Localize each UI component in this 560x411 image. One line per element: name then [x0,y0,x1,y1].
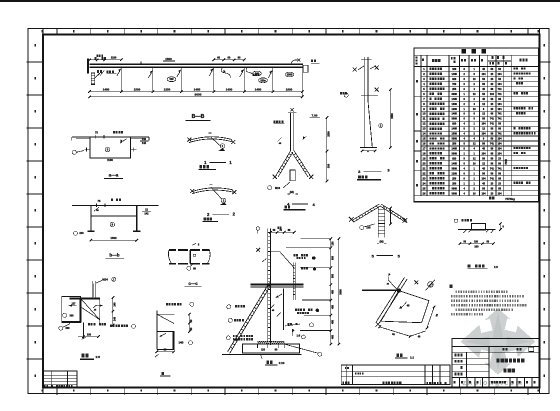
svg-text:3000: 3000 [452,93,458,96]
skew plate detail [362,273,439,339]
svg-text:1500: 1500 [391,113,394,119]
svg-text:920: 920 [452,78,457,81]
svg-text:1485: 1485 [452,98,458,101]
svg-text:258: 258 [452,177,457,180]
svg-text:23: 23 [423,176,426,180]
svg-text:16: 16 [423,142,426,146]
section c-c bowtie [168,243,210,270]
svg-text:104: 104 [498,73,503,76]
svg-text:1500: 1500 [452,133,458,136]
svg-text:1480: 1480 [255,87,262,91]
svg-text:135: 135 [366,227,371,230]
svg-text:741: 741 [490,118,495,121]
svg-text:159: 159 [169,78,174,81]
svg-text:b—b: b—b [109,252,119,257]
svg-text:17: 17 [423,147,426,151]
label b-b [106,252,125,258]
svg-text:21: 21 [423,166,426,170]
svg-text:10: 10 [423,112,426,116]
svg-text:19: 19 [423,157,426,161]
label 1-1 [204,160,232,165]
svg-text:258: 258 [452,88,457,91]
svg-text:741: 741 [490,167,495,170]
svg-text:741: 741 [490,123,495,126]
right ruler band [540,29,551,394]
svg-text:3000: 3000 [452,192,458,195]
svg-text:104: 104 [482,177,487,180]
svg-text:3000: 3000 [452,153,458,156]
arched member detail 2 [190,185,236,205]
svg-text:741: 741 [490,143,495,146]
svg-text:104: 104 [482,73,487,76]
title block [452,338,539,387]
svg-text:920: 920 [452,123,457,126]
svg-text:104: 104 [482,192,487,195]
post elevation detail 3 [340,57,394,153]
weld symbols below beam left [95,70,117,78]
caption detail 3 [358,175,361,178]
bracket detail KT2 [155,302,194,357]
svg-text:450: 450 [331,289,334,294]
beam top label 1500 [141,57,175,64]
svg-text:110: 110 [261,348,266,351]
svg-text:160: 160 [255,73,260,76]
svg-text:1400: 1400 [226,87,233,91]
bottom ruler band [42,388,540,395]
svg-text:258: 258 [452,143,457,146]
svg-text:1500: 1500 [165,57,172,61]
svg-text:(M): (M) [379,240,383,244]
svg-text:1485: 1485 [452,128,458,131]
bracket detail KT1 [59,277,136,339]
circled labels below beam [167,71,294,83]
svg-text:3000: 3000 [452,187,458,190]
label 3-3 [358,167,390,174]
svg-text:3000: 3000 [452,167,458,170]
svg-text:1100: 1100 [107,158,113,162]
svg-text:104: 104 [482,123,487,126]
caption plate detail 1 [200,165,203,168]
label 2-2 [207,212,236,217]
svg-text:M16: M16 [275,186,281,190]
caption plate detail 2 [203,218,205,221]
label 4-4 [287,202,315,207]
svg-text:1200: 1200 [452,108,458,111]
beam lower dimension line [88,87,303,93]
svg-text:1:1: 1:1 [410,355,414,359]
svg-text:9000: 9000 [195,93,202,97]
svg-text:1500: 1500 [134,87,141,91]
svg-text:24: 24 [423,181,426,185]
svg-text:1485: 1485 [452,113,458,116]
svg-text:104: 104 [498,138,503,141]
svg-text:920: 920 [452,158,457,161]
notes block [450,284,527,315]
label B-B [186,114,211,120]
svg-text:500: 500 [331,273,334,278]
bottom signature table [341,365,450,385]
svg-text:1350: 1350 [164,87,171,91]
svg-text:150a: 150a [260,79,266,82]
caption embed plate [468,264,499,269]
svg-text:104: 104 [498,148,503,151]
svg-text:142: 142 [142,142,147,145]
svg-text:160: 160 [474,246,479,249]
svg-text:400: 400 [331,334,334,339]
section b-b frame [72,199,159,242]
svg-text:(M): (M) [290,190,294,194]
svg-text:741: 741 [498,133,503,136]
svg-text:760: 760 [452,83,457,86]
svg-text:104: 104 [498,143,503,146]
caption detail 4 [285,205,287,208]
svg-text:104: 104 [482,133,487,136]
svg-text:600: 600 [331,255,334,260]
svg-text:1500: 1500 [287,74,293,77]
arched member detail 1 [187,133,235,151]
svg-text:3000: 3000 [452,138,458,141]
svg-text:450: 450 [331,319,334,324]
svg-text:7575kg: 7575kg [505,197,515,201]
svg-text:14: 14 [423,132,426,136]
svg-text:1:6: 1:6 [296,334,300,337]
caption KZ1 [265,361,285,366]
svg-text:13: 13 [423,127,426,131]
svg-text:104: 104 [498,153,503,156]
svg-text:7.00: 7.00 [312,113,318,117]
svg-text:1500: 1500 [110,236,117,240]
svg-text:258: 258 [452,182,457,185]
svg-text:142: 142 [144,213,149,216]
svg-text:741: 741 [498,93,503,96]
svg-text:1:5: 1:5 [494,265,498,269]
svg-text:140: 140 [114,316,117,321]
svg-text:1:5: 1:5 [96,355,101,359]
svg-text:12: 12 [423,122,426,126]
column base detail KZ1 [222,227,343,359]
svg-text:500: 500 [66,327,71,330]
material table [414,48,539,202]
svg-text:104: 104 [498,103,503,106]
svg-text:741: 741 [490,177,495,180]
svg-text:1485: 1485 [452,148,458,151]
svg-text:300: 300 [327,163,330,168]
svg-text:150: 150 [331,241,334,246]
svg-text:14B: 14B [179,341,184,345]
svg-text:a—a: a—a [109,173,119,178]
svg-text:1485: 1485 [452,73,458,76]
embed plate detail [454,219,504,249]
svg-text:160: 160 [452,68,457,71]
purlin beam elevation [87,58,320,97]
beam top-left dimension [88,55,123,62]
svg-text:741: 741 [498,113,503,116]
left ruler band [27,29,44,394]
svg-text:450: 450 [331,304,334,309]
top ruler band [42,29,540,35]
svg-text:3000: 3000 [340,289,343,295]
svg-text:1:10: 1:10 [279,361,285,365]
svg-text:22: 22 [423,171,426,175]
svg-text:26: 26 [423,191,426,195]
svg-text:100: 100 [87,333,92,336]
beam overall dimension line [88,93,303,99]
caption KT1 [80,354,101,360]
label 5-5 [372,253,401,258]
svg-text:1100: 1100 [111,57,117,60]
svg-text:1500: 1500 [452,103,458,106]
svg-text:18: 18 [423,152,426,156]
svg-text:104: 104 [498,83,503,86]
svg-text:20: 20 [423,162,426,166]
svg-text:1200: 1200 [452,172,458,175]
svg-text:104: 104 [490,93,495,96]
label a-a [104,173,123,179]
svg-text:1500: 1500 [327,131,330,137]
svg-text:1600: 1600 [286,87,293,91]
svg-text:240: 240 [79,232,84,235]
svg-text:1485: 1485 [194,87,201,91]
svg-text:3000: 3000 [452,118,458,121]
svg-text:M24: M24 [102,278,108,282]
apex joint detail 5 [349,204,407,244]
svg-text:c—c: c—c [188,281,198,286]
svg-text:15: 15 [423,137,426,141]
revision table [43,371,77,388]
caption KT2 [161,372,163,375]
svg-text:zhulong.com: zhulong.com [463,378,524,387]
svg-text:140: 140 [114,302,117,307]
svg-text:1485: 1485 [452,163,458,166]
svg-text:B—B: B—B [192,114,205,120]
svg-text:104: 104 [498,108,503,111]
label c-c [185,281,202,287]
watermark logo diamond [461,308,536,375]
section a-a hat profile [72,131,149,162]
weld leader curves mid beam [221,59,300,78]
svg-text:300: 300 [70,314,75,317]
svg-text:1480: 1480 [103,87,110,91]
svg-text:7575: 7575 [505,159,508,165]
svg-text:741: 741 [498,167,503,170]
svg-text:104: 104 [498,192,503,195]
svg-text:104: 104 [482,153,487,156]
beam top-right dimension 60x3 [212,57,245,62]
caption skew plate [395,354,414,360]
svg-text:741: 741 [498,118,503,121]
Y-joint tree column top [268,108,331,194]
svg-text:25: 25 [423,186,426,190]
svg-text:741: 741 [498,88,503,91]
top edge black strip [0,0,560,2]
inner drawing frame [43,35,540,388]
